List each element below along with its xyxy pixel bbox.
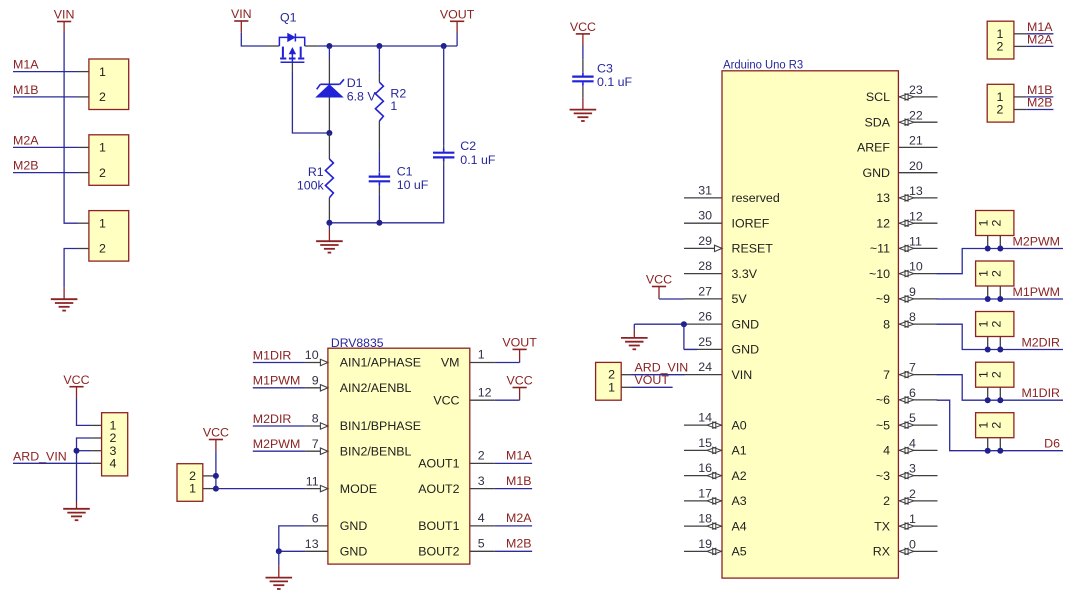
svg-text:SCL: SCL (866, 90, 890, 104)
connector JP_PWRIN (102, 413, 128, 476)
node JP_M2DIR pin2 (997, 347, 1003, 353)
connector JP_D6 (976, 413, 1014, 438)
node ground rail (74, 448, 80, 454)
wire M1B stub (495, 488, 532, 490)
wire D1 to node (328, 130, 330, 133)
svg-text:M2A: M2A (13, 133, 39, 147)
node JP_D6 pin1 (985, 448, 991, 454)
svg-text:24: 24 (698, 360, 712, 374)
node jumper pin2 (213, 473, 219, 479)
svg-text:2: 2 (883, 494, 890, 508)
node gate divider (326, 130, 332, 136)
svg-text:1: 1 (99, 65, 106, 79)
wire VIN to Q1 source (241, 33, 267, 46)
svg-text:AIN1/APHASE: AIN1/APHASE (340, 356, 421, 370)
svg-text:28: 28 (698, 259, 712, 273)
wire MODE net (216, 488, 306, 490)
ground (U1) (278, 551, 280, 565)
svg-text:12: 12 (478, 385, 492, 399)
svg-text:R1: R1 (308, 165, 324, 179)
svg-text:GND: GND (340, 519, 368, 533)
svg-text:1: 1 (390, 99, 397, 113)
pin U1 3 (AOUT2) (470, 488, 495, 490)
svg-text:VCC: VCC (507, 374, 533, 388)
pin U1 10 (AIN1/APHASE) (306, 362, 328, 364)
connector JP_M1DIR (976, 362, 1014, 387)
pin Arduino 3 (~3) (898, 475, 937, 477)
svg-text:M2B: M2B (13, 159, 38, 173)
connector JP_MODE (177, 464, 203, 502)
wire Q1 gate to divider node (292, 72, 329, 133)
transistor Q1 (P-MOSFET) (279, 34, 304, 63)
pin Arduino 9 (~9) (898, 298, 937, 300)
svg-text:M1B: M1B (506, 474, 531, 488)
svg-text:2: 2 (909, 487, 916, 501)
svg-text:M2A: M2A (506, 511, 532, 525)
svg-text:2: 2 (99, 242, 106, 256)
svg-text:1: 1 (608, 380, 615, 394)
pin Arduino 14 (A0) (684, 424, 722, 426)
pin D1 anode (328, 97, 330, 130)
pin JP_MB pin1 (1014, 96, 1026, 98)
svg-text:Q1: Q1 (280, 11, 297, 25)
pin R1 bottom (328, 198, 330, 223)
pin JP_ARDVIN pin1 (621, 386, 631, 388)
wire C1 to bottom rail (378, 194, 380, 222)
pin JP_M1PWM pin2 (999, 286, 1001, 299)
svg-text:8: 8 (909, 310, 916, 324)
pin Q1 source (267, 45, 279, 47)
pin JP_D6 pin1 (987, 438, 989, 451)
wire VCC riser (U1) (519, 399, 521, 400)
wire ARD_VIN (bottom-left) (13, 462, 91, 464)
svg-text:31: 31 (698, 183, 712, 197)
svg-text:1: 1 (189, 482, 196, 496)
svg-text:2: 2 (989, 320, 1003, 327)
svg-text:VOUT: VOUT (440, 8, 475, 22)
pin C3 bottom (582, 86, 584, 98)
pin JP_PWR pin1 (78, 222, 89, 224)
svg-text:RX: RX (873, 545, 890, 559)
svg-text:10: 10 (305, 348, 319, 362)
svg-text:10: 10 (909, 260, 923, 274)
pin Arduino 10 (~10) (898, 273, 937, 275)
svg-text:RESET: RESET (732, 242, 774, 256)
pin U1 7 (BIN2/BENBL) (306, 450, 328, 452)
wire C2 to bottom rail (329, 166, 443, 223)
svg-text:23: 23 (909, 83, 923, 97)
svg-text:13: 13 (909, 184, 923, 198)
svg-text:reserved: reserved (732, 191, 780, 205)
node bottom-C1 (376, 220, 382, 226)
node JP_M1PWM pin1 (985, 296, 991, 302)
pin Arduino 31 (reserved) (684, 197, 722, 199)
pin U1 2 (AOUT1) (470, 462, 495, 464)
svg-text:30: 30 (698, 209, 712, 223)
svg-text:AIN2/AENBL: AIN2/AENBL (340, 381, 412, 395)
svg-text:GND: GND (862, 166, 890, 180)
wire VCC to pin1 (77, 398, 92, 425)
node GND pins (681, 321, 687, 327)
svg-text:M1PWM: M1PWM (253, 374, 300, 388)
svg-text:M2A: M2A (1027, 32, 1053, 46)
svg-text:~9: ~9 (876, 292, 890, 306)
pin JP_M1DIR pin1 (987, 387, 989, 400)
wire M2DIR to U1 (253, 425, 306, 427)
svg-text:Arduino Uno R3: Arduino Uno R3 (723, 57, 803, 71)
pin Q1 drain (305, 45, 318, 47)
pin D1 cathode (328, 59, 330, 84)
pin C3 top (582, 59, 584, 72)
capacitor C1 (369, 176, 390, 178)
svg-text:7: 7 (909, 361, 916, 375)
wire VCC to C3 (582, 45, 584, 59)
pin Arduino 12 (12) (898, 222, 937, 224)
wire M2DIR (937, 324, 1063, 349)
svg-text:13: 13 (876, 191, 890, 205)
pin JP_PWRIN pin4 (91, 462, 102, 464)
ground (bottom-left) (76, 502, 78, 509)
svg-text:11: 11 (306, 474, 319, 488)
pin JP_MA pin2 (1014, 45, 1026, 47)
svg-text:22: 22 (909, 108, 923, 122)
pin C2 bottom (443, 162, 445, 166)
wire ARD_VIN (632, 374, 685, 376)
svg-text:3: 3 (478, 474, 485, 488)
svg-text:29: 29 (698, 234, 712, 248)
svg-text:3: 3 (909, 462, 916, 476)
node jumper pin1 (213, 486, 219, 492)
svg-text:A5: A5 (732, 545, 747, 559)
svg-text:0.1 uF: 0.1 uF (460, 153, 496, 167)
pin JP_M2PWM pin1 (987, 236, 989, 249)
wire VCC to jumper (215, 451, 217, 476)
svg-text:BOUT1: BOUT1 (418, 519, 459, 533)
pin R2 bottom (378, 121, 380, 151)
node JP_D6 pin2 (997, 448, 1003, 454)
wire U1 to VCC (495, 399, 520, 401)
svg-text:6.8 V: 6.8 V (347, 89, 377, 103)
pin Arduino 18 (A4) (684, 525, 722, 527)
node JP_M1DIR pin1 (985, 397, 991, 403)
svg-text:20: 20 (909, 159, 923, 173)
svg-text:M1A: M1A (13, 58, 39, 72)
node JP_M2DIR pin1 (985, 347, 991, 353)
pin JP_MODE pin2 (203, 475, 216, 477)
pin R2 top (378, 73, 380, 82)
pin JP_MB pin2 (1014, 109, 1026, 111)
pin Arduino 16 (A2) (684, 475, 722, 477)
pin Arduino 1 (TX) (898, 525, 937, 527)
svg-text:18: 18 (698, 512, 712, 526)
wire pin3 to node (77, 450, 92, 452)
svg-text:A4: A4 (732, 519, 747, 533)
svg-text:2: 2 (99, 166, 106, 180)
svg-text:2: 2 (997, 103, 1004, 117)
svg-text:VCC: VCC (570, 20, 596, 34)
svg-text:7: 7 (883, 368, 890, 382)
wire pin2 to ground rail (77, 438, 92, 502)
pin Arduino 24 (VIN) (684, 374, 722, 376)
wire VOUT rail (318, 45, 458, 47)
diode D1 (6.8V zener) (317, 79, 345, 97)
svg-text:~10: ~10 (869, 267, 890, 281)
pin Arduino 30 (IOREF) (684, 222, 722, 224)
node rail-R2 (376, 43, 382, 49)
wire M2PWM (937, 249, 1063, 274)
pin U1 12 (VCC) (470, 399, 495, 401)
svg-text:1: 1 (909, 512, 916, 526)
connector JP_ARDVIN (596, 362, 622, 400)
svg-text:ARD_VIN: ARD_VIN (13, 449, 67, 463)
pin Arduino 29 (RESET) (684, 247, 722, 249)
pin Arduino 23 (SCL) (898, 96, 937, 98)
wire VIN vertical to connector pin 1 (64, 33, 77, 223)
svg-text:4: 4 (110, 457, 117, 471)
pin JP_M2DIR pin2 (999, 337, 1001, 350)
svg-text:VIN: VIN (732, 368, 753, 382)
pin JP_ARDVIN pin2 (621, 374, 631, 376)
wire GND pin25 (684, 349, 697, 351)
svg-text:SDA: SDA (865, 116, 891, 130)
node JP_M1PWM pin2 (997, 296, 1003, 302)
pin Q1 gate (291, 62, 293, 72)
svg-text:2: 2 (997, 39, 1004, 53)
svg-text:0.1 uF: 0.1 uF (597, 75, 633, 89)
connector JP_MB (987, 84, 1014, 122)
svg-text:GND: GND (732, 317, 760, 331)
svg-text:0: 0 (909, 538, 916, 552)
svg-text:M1DIR: M1DIR (253, 348, 292, 362)
pin JP_M2PWM pin2 (999, 236, 1001, 249)
svg-text:MODE: MODE (340, 482, 377, 496)
pin JP_M1DIR pin2 (999, 387, 1001, 400)
pin R1 top (328, 133, 330, 159)
svg-text:M2B: M2B (506, 537, 531, 551)
svg-text:GND: GND (732, 343, 760, 357)
svg-text:VCC: VCC (646, 273, 672, 287)
wire M1B (top right) (1026, 96, 1053, 98)
wire U1 GND pin6 (279, 526, 306, 551)
svg-text:VIN: VIN (54, 8, 75, 22)
wire M1B (13, 96, 78, 98)
wire M2B (13, 172, 78, 174)
wire D6 (937, 400, 1063, 451)
svg-text:AOUT1: AOUT1 (418, 457, 459, 471)
pin JP_M1PWM pin1 (987, 286, 989, 299)
pin JP_PWRIN pin3 (91, 450, 102, 452)
svg-text:5: 5 (909, 411, 916, 425)
wire GND from connector pin 2 (64, 249, 77, 288)
node JP_M2PWM pin2 (997, 246, 1003, 252)
node rail-D1 (326, 43, 332, 49)
svg-text:D6: D6 (1044, 437, 1060, 451)
svg-text:2: 2 (989, 371, 1003, 378)
pin Arduino 6 (~6) (898, 399, 937, 401)
wire M1A stub (495, 462, 532, 464)
svg-text:25: 25 (698, 335, 712, 349)
svg-text:D1: D1 (347, 76, 363, 90)
svg-text:8: 8 (312, 412, 319, 426)
wire jumper vertical (215, 476, 217, 489)
wire M1PWM to U1 (253, 387, 306, 389)
wire GND pin26 (634, 323, 684, 325)
svg-text:A3: A3 (732, 494, 747, 508)
pin U1 1 (VM) (470, 362, 495, 364)
svg-text:~5: ~5 (876, 418, 890, 432)
svg-text:13: 13 (305, 537, 319, 551)
svg-text:17: 17 (698, 486, 712, 500)
pin U1 4 (BOUT1) (470, 525, 495, 527)
capacitor C3 (572, 75, 593, 77)
ground (power circuit) (328, 223, 330, 229)
pin U1 11 (MODE) (306, 488, 328, 490)
pin JP_MA pin1 (1014, 33, 1026, 35)
ground (below power connector) (63, 287, 65, 299)
node JP_M1DIR pin2 (997, 397, 1003, 403)
pin U1 6 (GND) (306, 525, 328, 527)
svg-text:4: 4 (883, 444, 890, 458)
svg-text:19: 19 (698, 537, 712, 551)
svg-text:8: 8 (883, 317, 890, 331)
pin Arduino 2 (2) (898, 500, 937, 502)
resistor R1 (325, 159, 333, 198)
svg-text:M2PWM: M2PWM (253, 437, 300, 451)
svg-text:VCC: VCC (433, 393, 459, 407)
svg-text:2: 2 (989, 219, 1003, 226)
svg-text:14: 14 (698, 411, 712, 425)
svg-text:100k: 100k (297, 178, 325, 192)
svg-text:M1B: M1B (13, 83, 38, 97)
svg-text:C1: C1 (397, 165, 413, 179)
pin Arduino 26 (GND) (684, 323, 722, 325)
svg-text:VCC: VCC (63, 373, 89, 387)
ground (Arduino) (633, 324, 635, 329)
wire M2A stub (495, 525, 532, 527)
svg-text:AOUT2: AOUT2 (418, 482, 459, 496)
node rail-C2 (441, 43, 447, 49)
wire rail to D1 (328, 46, 330, 59)
svg-text:2: 2 (989, 422, 1003, 429)
svg-text:GND: GND (340, 545, 368, 559)
wire M1PWM (937, 298, 1063, 300)
wire M1DIR (937, 375, 1063, 401)
capacitor C2 (433, 152, 454, 154)
pin C1 bottom (378, 186, 380, 195)
pin JP_PWRIN pin2 (91, 437, 102, 439)
svg-text:9: 9 (909, 285, 916, 299)
svg-text:VIN: VIN (231, 7, 252, 21)
pin Arduino 20 (GND) (898, 172, 937, 174)
pin JP_PWR pin2 (78, 248, 89, 250)
pin U1 5 (BOUT2) (470, 550, 495, 552)
wire GND pin25 riser (683, 324, 685, 349)
pin Arduino 21 (AREF) (898, 146, 937, 148)
svg-text:M1DIR: M1DIR (1021, 386, 1060, 400)
svg-text:BIN1/BPHASE: BIN1/BPHASE (340, 419, 421, 433)
svg-text:12: 12 (909, 209, 923, 223)
svg-text:27: 27 (698, 284, 712, 298)
svg-text:DRV8835: DRV8835 (331, 336, 384, 350)
svg-text:IOREF: IOREF (732, 217, 770, 231)
svg-text:A0: A0 (732, 418, 747, 432)
wire rail to C2 (443, 46, 445, 145)
svg-text:M2B: M2B (1027, 96, 1052, 110)
node JP_M2PWM pin1 (985, 246, 991, 252)
pin C2 top (443, 145, 445, 149)
svg-text:7: 7 (312, 437, 319, 451)
svg-text:4: 4 (909, 437, 916, 451)
pin Arduino 17 (A3) (684, 500, 722, 502)
svg-text:10 uF: 10 uF (397, 178, 429, 192)
pin Arduino 19 (A5) (684, 550, 722, 552)
svg-text:5: 5 (478, 537, 485, 551)
pin Arduino 4 (4) (898, 449, 937, 451)
wire M1DIR to U1 (253, 362, 306, 364)
pin U1 8 (BIN1/BPHASE) (306, 425, 328, 427)
wire M2B stub (495, 550, 532, 552)
wire M2A (13, 146, 78, 148)
connector JP_PWR (power terminal block) (89, 211, 129, 262)
wire U1 to VOUT (495, 362, 520, 364)
svg-text:2: 2 (99, 90, 106, 104)
wire M2PWM to U1 (253, 450, 306, 452)
pin JP_M2 pin2 (78, 172, 89, 174)
svg-text:~3: ~3 (876, 469, 890, 483)
svg-text:AREF: AREF (857, 141, 890, 155)
pin JP_PWRIN pin1 (91, 424, 102, 426)
pin Arduino 7 (7) (898, 374, 937, 376)
svg-text:VOUT: VOUT (502, 336, 537, 350)
svg-text:5V: 5V (732, 292, 748, 306)
svg-text:BIN2/BENBL: BIN2/BENBL (340, 444, 412, 458)
connector JP_M1 (motor 1 terminal block) (89, 59, 129, 110)
pin JP_MODE pin1 (203, 488, 216, 490)
wire M2B (top right) (1026, 109, 1053, 111)
svg-text:21: 21 (909, 134, 923, 148)
svg-text:M2PWM: M2PWM (1013, 234, 1061, 248)
pin Arduino 8 (8) (898, 323, 937, 325)
pin JP_M2DIR pin1 (987, 337, 989, 350)
svg-text:TX: TX (874, 519, 890, 533)
pin JP_D6 pin2 (999, 438, 1001, 451)
svg-text:~11: ~11 (870, 242, 890, 256)
svg-text:1: 1 (99, 141, 106, 155)
pin Arduino 22 (SDA) (898, 121, 937, 123)
svg-text:6: 6 (312, 512, 319, 526)
connector JP_MA (987, 21, 1014, 59)
wire VCC to 5V (658, 297, 660, 300)
svg-text:M1PWM: M1PWM (1013, 285, 1061, 299)
svg-text:BOUT2: BOUT2 (418, 545, 459, 559)
wire R2 to C1 (378, 151, 380, 172)
svg-text:16: 16 (698, 461, 712, 475)
svg-text:1: 1 (478, 348, 485, 362)
pin Arduino 25 (GND) (684, 348, 722, 350)
wire VOUT riser (456, 33, 458, 46)
svg-text:9: 9 (312, 374, 319, 388)
svg-text:6: 6 (909, 386, 916, 400)
svg-text:3.3V: 3.3V (732, 267, 758, 281)
svg-text:C2: C2 (460, 139, 476, 153)
svg-text:A1: A1 (732, 444, 747, 458)
pin JP_M1 pin1 (78, 71, 89, 73)
connector JP_M2PWM (976, 211, 1014, 236)
svg-text:2: 2 (478, 449, 485, 463)
pin JP_M1 pin2 (78, 96, 89, 98)
svg-text:1: 1 (99, 216, 106, 230)
pin U1 9 (AIN2/AENBL) (306, 387, 328, 389)
